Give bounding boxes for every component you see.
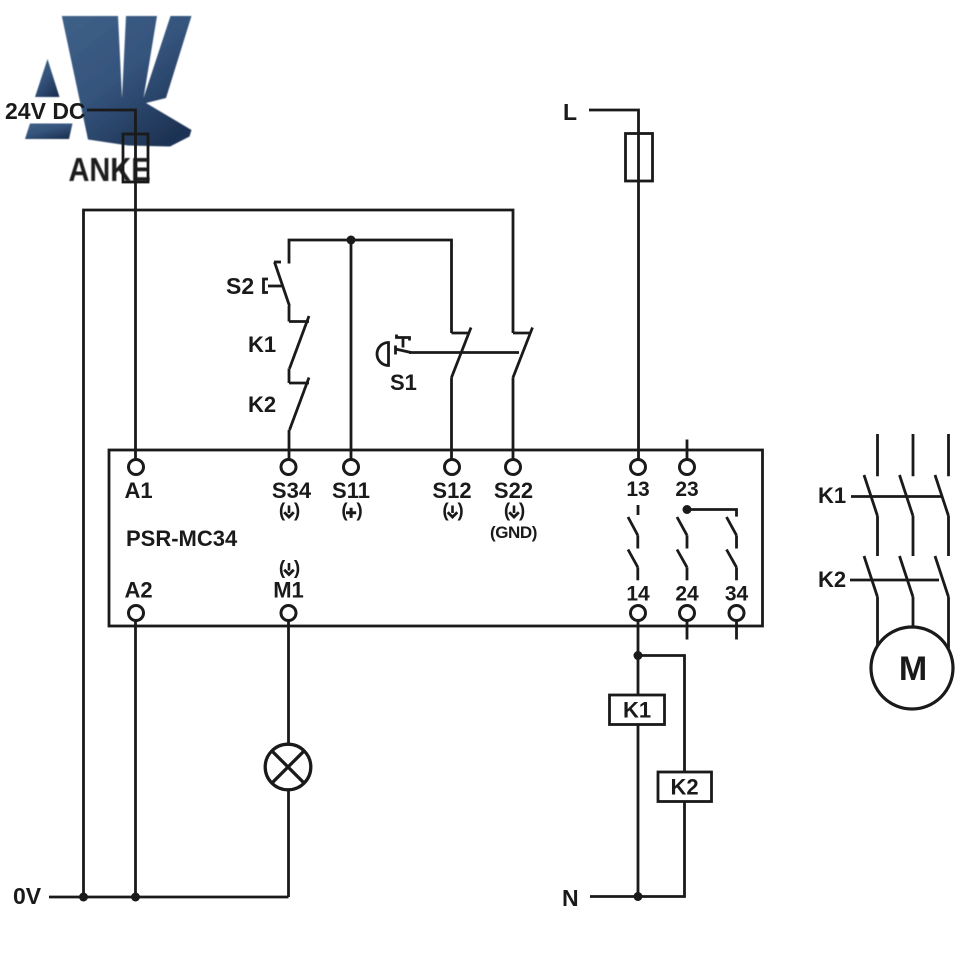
coil K2 (658, 772, 712, 802)
label S34 arrow (279, 501, 300, 522)
svg-text:S2: S2 (226, 273, 254, 299)
fuse F2 (626, 134, 653, 182)
svg-text:): ) (457, 501, 463, 522)
wire S11 top horizontal (289, 240, 452, 333)
svg-text:(: ( (279, 501, 286, 522)
wire 34 stub (735, 621, 738, 640)
wire GND top horizontal + left 0V rail (84, 210, 514, 897)
wire 14 branch link + K2 coil feed (638, 656, 685, 773)
svg-text:K1: K1 (818, 483, 846, 508)
contact K1 (NC aux) (289, 320, 309, 323)
svg-text:PSR-MC34: PSR-MC34 (126, 526, 238, 551)
svg-text:): ) (294, 501, 300, 522)
svg-text:13: 13 (626, 478, 649, 501)
terminal 24 (680, 606, 695, 621)
contactor K1 main contacts (864, 434, 878, 556)
terminal S22 (506, 460, 521, 475)
terminal circles (129, 460, 745, 621)
svg-text:A2: A2 (124, 578, 152, 603)
terminal A2 (129, 606, 144, 621)
svg-text:24: 24 (675, 583, 699, 606)
label S12 arrow (442, 501, 463, 522)
svg-text:24V DC: 24V DC (5, 98, 86, 124)
wire 14 drop (637, 621, 640, 656)
wire lamp-0V (287, 790, 290, 897)
svg-text:A1: A1 (124, 478, 152, 503)
contact S1 channel 1 (452, 332, 470, 335)
contact 13-14 (637, 505, 640, 515)
terminal S34 (281, 460, 296, 475)
svg-text:(: ( (442, 501, 449, 522)
wire S2-K1 (288, 306, 291, 322)
svg-text:K1: K1 (248, 332, 276, 357)
svg-text:S22: S22 (494, 478, 533, 503)
node 23 junction (683, 505, 692, 514)
svg-text:L: L (563, 99, 577, 125)
wire M1 drop (287, 621, 290, 746)
terminal 13 (631, 460, 646, 475)
svg-text:M: M (899, 650, 927, 688)
svg-text:23: 23 (675, 478, 698, 501)
contact S2 (274, 261, 281, 264)
ANKE logo monogram AK (25, 16, 192, 188)
terminal S11 (344, 460, 359, 475)
wire N line + K2-N (590, 802, 685, 897)
wire A2 drop (134, 621, 137, 898)
node 0V rail junction (79, 893, 88, 902)
wire K2-S34 (288, 430, 291, 460)
svg-text:K2: K2 (670, 775, 698, 800)
contact S1 channel 2 (513, 332, 531, 335)
wire K1-K2 (288, 369, 291, 384)
wire K1 actuator link (851, 495, 942, 498)
svg-text:(: ( (341, 501, 348, 522)
svg-text:(: ( (504, 501, 511, 522)
terminal M1 (281, 606, 296, 621)
svg-text:(GND): (GND) (490, 523, 537, 542)
A foot bar (25, 124, 73, 140)
svg-text:S34: S34 (272, 478, 312, 503)
node S11 junction (347, 236, 356, 245)
wire 23 stub (686, 440, 689, 460)
wire S22 drop (512, 378, 515, 460)
label S22 arrow (504, 501, 525, 522)
wire S1 actuator link (409, 351, 519, 354)
AK main mass (A right leg + K) (62, 16, 192, 147)
wire 23-34 link (687, 510, 737, 517)
label M1 arrow (279, 558, 300, 579)
svg-text:34: 34 (725, 583, 749, 606)
svg-text:N: N (562, 885, 579, 911)
svg-text:S12: S12 (432, 478, 471, 503)
svg-text:K2: K2 (818, 567, 846, 592)
svg-text:S11: S11 (332, 478, 370, 503)
svg-text:M1: M1 (273, 578, 304, 603)
terminal S12 (445, 460, 460, 475)
wire K1 coil feed (637, 656, 640, 696)
svg-text:0V: 0V (13, 883, 42, 909)
relay box PSR-MC34 (109, 450, 763, 626)
wire 0V line (49, 896, 289, 899)
wire S11 feed (350, 240, 353, 460)
wire S12 drop (450, 378, 453, 460)
wire K2 actuator link (850, 579, 939, 582)
terminal 23 (680, 460, 695, 475)
terminal 14 (631, 606, 646, 621)
svg-text:(: ( (279, 558, 286, 579)
fuse F1 (123, 134, 148, 182)
label S11 plus (341, 501, 362, 522)
contactor K2 main contacts (864, 556, 878, 648)
contact 34 (727, 517, 737, 535)
wire 24 stub (686, 621, 689, 640)
pushbutton S1 head (377, 343, 389, 366)
svg-text:): ) (519, 501, 525, 522)
wire K1-N (637, 725, 640, 897)
contact 23-24 (677, 517, 687, 535)
svg-text:14: 14 (626, 583, 650, 606)
svg-text:): ) (294, 558, 300, 579)
wire 24VDC lead and A1 supply drop (87, 110, 136, 460)
svg-text:): ) (356, 501, 362, 522)
wire L lead + 13 supply drop (589, 110, 639, 460)
svg-text:K2: K2 (248, 392, 276, 417)
svg-text:K1: K1 (623, 698, 651, 723)
svg-text:S1: S1 (390, 370, 417, 395)
terminal 34 (729, 606, 744, 621)
motor M (871, 627, 953, 709)
node 14 junction (634, 651, 643, 660)
contact K2 (NC aux) (289, 382, 309, 385)
node A2-0V junction (131, 893, 140, 902)
A left-leg triangle (35, 59, 60, 97)
terminal A1 (129, 460, 144, 475)
node N junction (634, 892, 643, 901)
coil K1 (610, 695, 665, 725)
lamp H1 (265, 744, 311, 790)
